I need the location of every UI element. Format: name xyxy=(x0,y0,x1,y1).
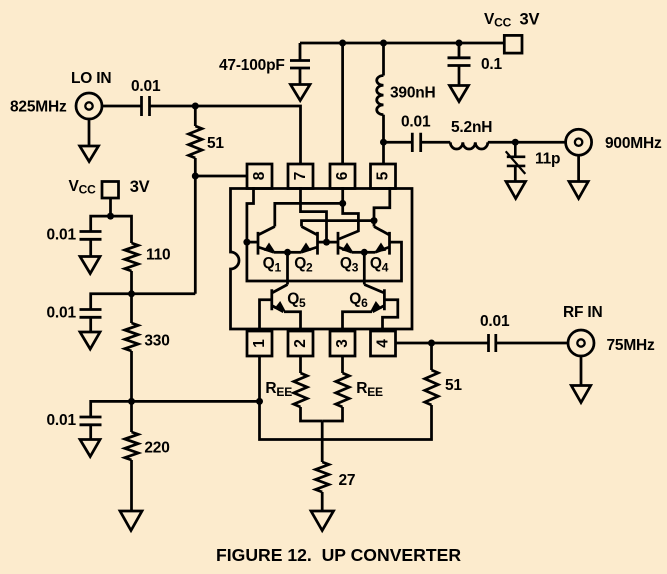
capacitor C7 0.01 (output coupling) xyxy=(412,133,420,152)
arrow Q5 emitter xyxy=(274,301,289,315)
ground (J3) xyxy=(571,356,590,403)
wire node A down to bias node B xyxy=(194,176,197,294)
node G base junction dot (Q2,Q3) xyxy=(323,239,330,246)
wire pin 7 to Q2/Q3 bases xyxy=(301,187,327,242)
resistor R5 27 xyxy=(316,462,329,492)
node K junction dot xyxy=(428,340,435,347)
resistor R6 51 (RF) xyxy=(425,370,438,405)
svg-text:0.01: 0.01 xyxy=(131,78,161,95)
svg-text:47-100pF: 47-100pF xyxy=(219,57,285,74)
wire Q4 emitter to node I xyxy=(364,251,375,254)
transistor Q5 xyxy=(272,285,288,312)
capacitor C4 0.01 (node C bypass) xyxy=(80,417,102,425)
svg-text:220: 220 xyxy=(144,440,169,457)
capacitor C9 0.01 (RF coupling) xyxy=(489,334,496,352)
wire pin 4 to node K xyxy=(396,342,432,345)
wire R1 to node A xyxy=(194,158,197,176)
svg-text:11p: 11p xyxy=(535,151,560,168)
node J junction dot (pin1-bias) xyxy=(256,398,263,405)
wire REE2 to center join xyxy=(322,407,342,421)
node 900MHz connector J2 xyxy=(566,129,592,155)
wire Q2 emitter to node F xyxy=(288,251,302,254)
svg-text:1: 1 xyxy=(251,339,268,348)
transistor Q2 xyxy=(301,227,318,255)
wire node K to R6 xyxy=(430,343,433,370)
svg-text:6: 6 xyxy=(334,171,351,180)
node Q1 base junction dot xyxy=(243,239,250,246)
op-amp U1 body (HFA3101 outline with notch) xyxy=(231,189,413,330)
wire node D to pin 5 xyxy=(382,142,385,165)
wire L2 to node E xyxy=(488,141,566,144)
pin 2 box xyxy=(288,331,313,356)
wire Q2 collector to node H xyxy=(302,221,375,227)
wire node J to bottom rail xyxy=(260,401,432,439)
transistor Q3 xyxy=(338,232,352,255)
inductor L2 5.2nH xyxy=(450,142,488,149)
resistor R4 220 xyxy=(125,432,138,460)
svg-text:3V: 3V xyxy=(520,10,540,28)
pin 4 box xyxy=(371,331,396,356)
wire pin 3 to REE2 xyxy=(341,356,344,373)
node LO IN connector J1 xyxy=(76,93,102,119)
ground (C8) xyxy=(506,166,526,199)
wire node H to pin 5 xyxy=(374,187,390,221)
wire LO junction to R1 xyxy=(194,106,197,126)
svg-text:0.01: 0.01 xyxy=(47,305,77,322)
wire R4 to ground xyxy=(130,460,133,511)
wire node F to Q5 collector xyxy=(286,252,289,284)
pin 5 box xyxy=(371,164,396,189)
node rail-L1 junction dot xyxy=(380,40,387,47)
wire Q5 emitter to pin 2 xyxy=(284,312,301,332)
wire pin6 to Q3 collector xyxy=(339,203,358,239)
wire C1 to pin7 riser xyxy=(150,106,301,165)
svg-text:3V: 3V xyxy=(130,178,150,196)
svg-text:0.01: 0.01 xyxy=(480,313,510,330)
svg-text:51: 51 xyxy=(445,377,462,394)
wire REE1 to center join xyxy=(301,407,323,421)
wire pin 1 to node J xyxy=(258,356,261,401)
svg-text:4: 4 xyxy=(375,339,392,348)
ground (R4) xyxy=(120,511,142,531)
power VCC terminal (top right) xyxy=(504,35,522,53)
wire R2 to node B xyxy=(130,271,133,294)
ground (C2) xyxy=(80,239,100,273)
svg-text:FIGURE 12. UP CONVERTER: FIGURE 12. UP CONVERTER xyxy=(216,545,461,565)
capacitor C8 11p trimmer xyxy=(507,142,526,166)
wire node C to R4 xyxy=(130,401,133,432)
svg-text:110: 110 xyxy=(146,247,170,264)
inductor L1 390nH xyxy=(377,76,384,115)
ground (C3) xyxy=(80,317,100,349)
wire rail to pin 6 xyxy=(341,43,344,165)
wire Q6 emitter to pin 3 xyxy=(343,312,373,332)
node D junction dot xyxy=(380,139,387,146)
node rail-pin6 junction dot xyxy=(339,40,346,47)
capacitor C3 0.01 (node B bypass) xyxy=(80,310,102,318)
svg-text:3: 3 xyxy=(334,339,351,348)
wire Q6 base to pin 4 xyxy=(383,300,398,332)
node RF IN connector J3 xyxy=(568,330,594,356)
svg-text:RF IN: RF IN xyxy=(563,304,602,321)
svg-text:5: 5 xyxy=(375,171,392,180)
node pin6 junction dot xyxy=(339,200,346,207)
capacitor C6 0.1 (VCC bypass) xyxy=(448,43,471,66)
pin 8 box xyxy=(247,164,272,189)
wire node VB to C2 xyxy=(91,216,111,231)
power VCC terminal (left) xyxy=(102,182,119,199)
wire center join to R5 xyxy=(321,421,324,462)
node I emitter junction dot (Q3,Q4) xyxy=(361,249,368,256)
wire node B to C3 xyxy=(91,294,132,310)
wire VCC square to node VB xyxy=(109,198,112,216)
svg-text:LO IN: LO IN xyxy=(71,70,111,87)
wire C9 to RF connector xyxy=(496,342,568,345)
wire Q1 collector riser xyxy=(275,203,343,226)
wire rail to L1 xyxy=(382,43,385,76)
svg-text:27: 27 xyxy=(339,472,356,489)
svg-text:0.01: 0.01 xyxy=(47,412,77,429)
node rail-C6 junction dot xyxy=(456,40,463,47)
wire node D to C7 xyxy=(384,141,413,144)
wire pin 6 into IC xyxy=(341,187,344,203)
arrow Q3 emitter xyxy=(342,243,356,257)
svg-text:330: 330 xyxy=(144,333,169,350)
wire node A to pin 8 xyxy=(195,175,247,178)
svg-text:8: 8 xyxy=(251,171,268,180)
wire Q3 emitter to node I xyxy=(352,251,364,254)
svg-text:51: 51 xyxy=(207,135,224,152)
resistor REE1 xyxy=(294,373,307,407)
resistor REE2 xyxy=(336,373,349,407)
svg-text:390nH: 390nH xyxy=(390,85,436,102)
svg-text:0.01: 0.01 xyxy=(401,114,431,131)
transistor Q6 xyxy=(364,285,384,312)
node H collector junction dot (Q2,Q4 to pin5) xyxy=(371,217,378,224)
trimmer arrow (C8) xyxy=(506,151,526,174)
svg-text:5.2nH: 5.2nH xyxy=(451,119,492,136)
pin 7 box xyxy=(288,164,313,189)
svg-text:900MHz: 900MHz xyxy=(605,135,662,152)
wire LO connector to C1 xyxy=(103,105,142,108)
node A junction dot (pin 8 bias) xyxy=(192,173,199,180)
wire top rail VCC xyxy=(300,42,504,45)
wire L1 to node D xyxy=(382,115,385,143)
pin 6 box xyxy=(330,164,355,189)
resistor R3 330 xyxy=(125,323,138,351)
wire Q5 base to pin 1 xyxy=(260,300,272,332)
arrow Q4 emitter xyxy=(372,243,386,257)
svg-text:75MHz: 75MHz xyxy=(607,337,656,354)
node LO junction dot xyxy=(192,103,199,110)
wire Q1 base cross-route to Q4 base xyxy=(247,242,402,281)
capacitor C5 47-100pF xyxy=(290,43,310,68)
ground (C5) xyxy=(291,68,311,101)
wire Q2-Q3 base link xyxy=(318,241,339,244)
ground (R5) xyxy=(311,511,334,531)
wire C7 to L2 xyxy=(421,141,451,144)
wire node C to pin 1 column xyxy=(132,400,260,403)
wire node C to C4 xyxy=(91,401,132,417)
transistor Q1 xyxy=(258,227,275,255)
wire node K to C9 xyxy=(432,342,489,345)
wire Q4 collector to node H xyxy=(373,221,376,227)
pin 3 box xyxy=(330,331,355,356)
svg-text:825MHz: 825MHz xyxy=(10,99,67,116)
wire node B to node A column xyxy=(132,292,196,295)
wire node VB to R2 xyxy=(111,216,132,243)
ground (J2) xyxy=(569,155,588,198)
arrow Q2 emitter xyxy=(297,243,311,257)
ground (C4) xyxy=(80,425,100,457)
wire node I to Q6 collector xyxy=(363,252,366,284)
resistor R2 110 xyxy=(125,243,138,271)
ground (LO IN) xyxy=(80,120,99,162)
pin 1 box xyxy=(247,331,272,356)
ground (C6) xyxy=(450,66,469,102)
node E junction dot xyxy=(512,139,519,146)
transistor Q4 xyxy=(374,227,390,255)
capacitor C2 0.01 (VCC bypass) xyxy=(80,232,102,240)
svg-text:2: 2 xyxy=(292,339,309,347)
resistor R1 51 xyxy=(189,126,202,158)
wire pin 2 to REE1 xyxy=(299,356,302,373)
svg-text:0.1: 0.1 xyxy=(481,56,503,73)
wire Q1 base stub xyxy=(247,241,258,244)
node VB junction dot xyxy=(107,213,114,220)
node B junction dot xyxy=(128,290,135,297)
capacitor C1 0.01 (LO coupling) xyxy=(142,96,150,116)
wire pin 8 to Q1 base xyxy=(247,187,254,242)
arrow Q6 emitter xyxy=(367,301,382,315)
svg-text:7: 7 xyxy=(292,172,309,180)
node F emitter junction dot (Q1,Q2) xyxy=(284,249,291,256)
wire R5 to ground xyxy=(321,492,324,511)
svg-text:0.01: 0.01 xyxy=(47,227,77,244)
node C junction dot xyxy=(128,398,135,405)
arrow Q1 emitter xyxy=(264,243,278,257)
wire R3 to node C xyxy=(130,351,133,401)
wire Q1 emitter to node F xyxy=(274,251,288,254)
wire node B to R3 xyxy=(130,294,133,323)
